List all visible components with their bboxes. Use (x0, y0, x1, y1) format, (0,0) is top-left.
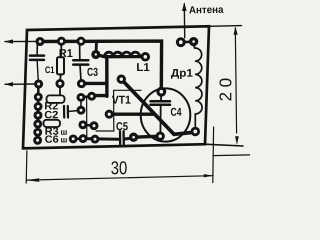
wire thick diagonal (122, 80, 195, 134)
pad R1 bottom (55, 79, 64, 88)
wire left pad chain (36, 84, 39, 140)
pad mid2 (87, 92, 96, 101)
left arrow 1 (5, 40, 40, 42)
transistor VT1 outline box (96, 90, 141, 131)
label VT1 (112, 96, 131, 104)
right extension line vertical (212, 127, 215, 183)
left extension line (25, 151, 28, 183)
label Dr1 (171, 69, 193, 79)
pad bot2 (79, 134, 88, 143)
pad VT1 left (105, 110, 114, 119)
top edge extension (209, 25, 242, 28)
capacitor C1 plates (30, 54, 44, 57)
label L1 (137, 63, 149, 71)
label R3 (45, 127, 58, 134)
pad bot3 (91, 135, 100, 144)
wire C5 trace right (125, 138, 134, 139)
capacitor C2 plates (63, 106, 65, 118)
pad chain3 (34, 102, 43, 111)
board outline (23, 26, 209, 148)
wire left vertical trace (105, 58, 108, 96)
pad mid3 (78, 120, 87, 129)
pad L1 right (141, 52, 151, 62)
wire horizontal B (92, 94, 107, 97)
capacitor C3 plates (73, 59, 88, 62)
wire T-branch to L1 left pad (95, 41, 98, 54)
antenna arrow (183, 4, 185, 38)
wire horizontal A (82, 82, 107, 85)
pad circ bot2 (156, 132, 165, 141)
pads (33, 37, 200, 145)
resistor R2 body (47, 95, 65, 103)
capacitor C5 plates (119, 131, 121, 146)
wire bottom trace (134, 136, 161, 137)
wire R1 pad to R2 (59, 87, 61, 96)
pad bot1 (69, 134, 78, 143)
wire pad link (81, 96, 92, 97)
resistor R1 leads (60, 43, 62, 57)
pad circ bot1 (129, 133, 138, 142)
label C5 (116, 122, 127, 130)
label C2 (45, 111, 58, 118)
dimension line 20 (235, 28, 236, 133)
wire pad stem (80, 100, 82, 110)
pad C4 top (156, 87, 166, 97)
pad chain5 (33, 120, 42, 129)
label R2 (45, 102, 58, 109)
resistor R1 body (57, 57, 64, 74)
wire C5 trace left (83, 137, 119, 141)
inductor Dr1 coil (195, 48, 202, 127)
label C6 (45, 135, 58, 142)
label C4 (171, 108, 182, 116)
right extension line horizontal (213, 154, 250, 157)
pad antenna left (176, 37, 186, 47)
pad antenna right (189, 37, 198, 46)
pad top3 (76, 37, 85, 46)
wire pad link bottom (73, 137, 83, 140)
capacitor C4 trimmer circle (141, 88, 191, 141)
pad L1 left (91, 50, 100, 59)
pad top1 (35, 37, 44, 46)
pad mid1 (77, 93, 86, 102)
label C3 (87, 68, 97, 76)
wire antenna pad link (181, 40, 194, 43)
inductor L1 baseline (96, 55, 145, 57)
label C1 (45, 66, 54, 73)
wire mid pad link (83, 124, 94, 127)
pad chain4 (34, 111, 43, 120)
inductor L1 bumps (105, 52, 140, 57)
label R1 (60, 49, 73, 57)
wire top trace (40, 41, 162, 92)
pad VT1 top (117, 75, 126, 84)
pad Dr1 bottom (191, 127, 201, 137)
pad C3 bottom (77, 79, 86, 88)
pad chain7 (33, 136, 42, 145)
pad chain2 (34, 93, 43, 102)
wire choke stem (193, 44, 194, 49)
pad chain6 (33, 128, 42, 137)
label 20 (219, 79, 231, 101)
pad mid4 (90, 121, 99, 130)
resistor R3 body (44, 120, 61, 127)
bottom edge extension (205, 144, 243, 146)
resistor mark w2 (61, 138, 67, 142)
pad C2 right (77, 106, 86, 115)
wire C2 lead (68, 111, 79, 112)
wire VT1 trace (109, 112, 153, 115)
antenna label (189, 6, 223, 14)
pad chain1 (34, 79, 43, 88)
resistor mark w1 (61, 130, 67, 134)
capacitor C4 plates (151, 100, 171, 103)
label 30 (111, 161, 126, 174)
left arrow 2 (5, 83, 37, 85)
pad top2 (57, 37, 66, 46)
dimension line 30 (26, 176, 213, 180)
